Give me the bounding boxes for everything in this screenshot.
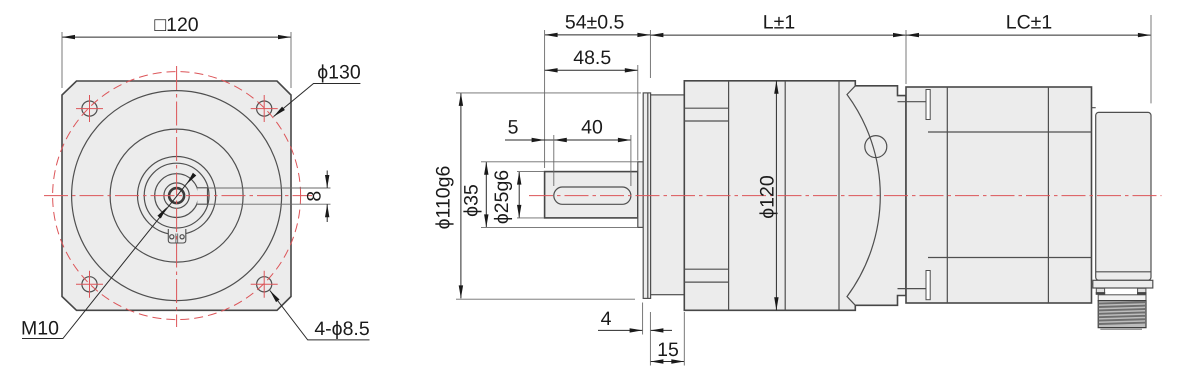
adapter hole (865, 136, 887, 158)
ear hole left (170, 235, 174, 239)
ring gear groove lines top (684, 108, 728, 121)
bolt hole bottom-right (257, 277, 272, 292)
svg-text:ϕ110g6: ϕ110g6 (433, 166, 455, 230)
bolt circle phi130 (red dashed) (53, 72, 301, 320)
body section line 1 (728, 81, 730, 310)
keyway slot (554, 187, 631, 204)
bolt hole cross TL (76, 95, 103, 122)
M10 thread ring (169, 188, 184, 203)
bolt hole top-left (82, 101, 97, 116)
rear cap (1096, 112, 1151, 280)
motor body (906, 87, 1092, 303)
connector nub right dark base (1137, 292, 1147, 295)
svg-text:ϕ130: ϕ130 (317, 62, 361, 84)
svg-text:48.5: 48.5 (573, 47, 611, 69)
svg-text:LC±1: LC±1 (1006, 12, 1052, 34)
motor corner line top (928, 131, 1092, 133)
bolt hole cross TR (251, 95, 278, 122)
connector thread barrel (1098, 301, 1146, 328)
connector nub left (1096, 288, 1104, 292)
spigot chamfer line (647, 93, 649, 299)
barrel bottom shadow (1100, 328, 1142, 330)
output shaft phi25 (545, 172, 638, 218)
collar phi35 (638, 162, 643, 228)
motor front tab lines (898, 102, 927, 289)
ear hole right (180, 235, 184, 239)
ring gear groove lines bottom (684, 269, 728, 282)
svg-text:8: 8 (304, 191, 326, 202)
center crosshair vertical (176, 66, 178, 327)
ear slot (176, 234, 178, 244)
connector plate (1093, 280, 1153, 288)
dimension 8 keyway width (208, 188, 331, 204)
circle retaining ring outer (138, 157, 216, 235)
thread lines (1098, 302, 1146, 324)
bolt hole cross BR (251, 271, 278, 298)
svg-text:ϕ120: ϕ120 (757, 175, 779, 219)
svg-text:□120: □120 (154, 14, 198, 36)
svg-text:15: 15 (657, 339, 679, 361)
motor clamp top (926, 90, 930, 120)
svg-text:54±0.5: 54±0.5 (565, 12, 625, 34)
shaft circle phi25 (155, 174, 199, 218)
keyway slot front (197, 188, 207, 204)
bolt hole cross BL (76, 271, 103, 298)
circle phi35 collar (144, 163, 209, 228)
svg-text:ϕ25g6: ϕ25g6 (491, 170, 513, 224)
connector nub right (1138, 288, 1146, 292)
svg-text:5: 5 (508, 117, 519, 139)
pilot circle phi110 (72, 91, 282, 301)
gearbox body (684, 81, 906, 310)
retaining ring ears (168, 229, 186, 243)
body section line 3 (adapter start) (838, 81, 840, 310)
body section line 2 (784, 81, 786, 310)
flange plate (square with chamfered corners) (62, 81, 291, 310)
svg-text:4-ϕ8.5: 4-ϕ8.5 (314, 318, 370, 340)
connector nub left dark base (1096, 292, 1106, 295)
motor section line 2 (1047, 87, 1049, 303)
cap parting line (1096, 271, 1151, 273)
bolt hole bottom-left (82, 277, 97, 292)
circle phi70 recess (110, 129, 243, 262)
svg-text:4: 4 (601, 308, 612, 330)
svg-text:ϕ35: ϕ35 (461, 184, 483, 217)
centerline axis (529, 195, 1162, 197)
front plate (651, 95, 685, 295)
adapter arc (847, 86, 880, 305)
center crosshair horizontal (44, 195, 312, 197)
svg-text:40: 40 (581, 117, 603, 139)
connector neck (1098, 295, 1146, 301)
svg-text:M10: M10 (21, 318, 59, 340)
svg-text:L±1: L±1 (763, 12, 795, 34)
motor corner line bottom (928, 257, 1092, 259)
rear step top (1092, 108, 1096, 284)
motor clamp bottom (926, 271, 930, 300)
motor section line 1 (946, 87, 948, 303)
spigot phi110g6 (643, 93, 650, 299)
bolt hole top-right (257, 101, 272, 116)
shaft chamfer circle (164, 183, 189, 208)
